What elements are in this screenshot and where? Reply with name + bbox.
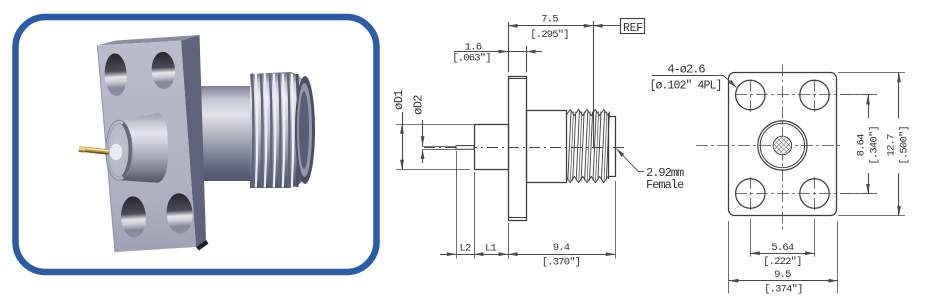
svg-text:[.222"]: [.222"] (763, 256, 802, 268)
svg-text:[.500"]: [.500"] (899, 126, 911, 165)
svg-text:4-ø2.6: 4-ø2.6 (667, 63, 705, 77)
svg-text:øD1: øD1 (392, 90, 406, 110)
svg-text:[.370"]: [.370"] (542, 257, 581, 269)
svg-text:L1: L1 (485, 243, 497, 255)
svg-text:REF: REF (623, 22, 643, 35)
svg-text:12.7: 12.7 (886, 134, 898, 157)
svg-text:8.64: 8.64 (856, 134, 868, 157)
svg-text:Female: Female (646, 178, 684, 192)
svg-text:øD2: øD2 (412, 95, 426, 115)
svg-text:9.4: 9.4 (553, 242, 570, 254)
svg-text:5.64: 5.64 (771, 242, 794, 254)
svg-text:[.374"]: [.374"] (764, 284, 803, 296)
svg-text:[.295"]: [.295"] (530, 29, 569, 41)
svg-text:9.5: 9.5 (774, 269, 791, 281)
svg-text:[ø.102" 4PL]: [ø.102" 4PL] (649, 80, 721, 93)
svg-text:[.340"]: [.340"] (869, 126, 881, 165)
svg-text:[.063"]: [.063"] (452, 53, 491, 65)
svg-text:L2: L2 (459, 243, 471, 255)
svg-text:7.5: 7.5 (541, 14, 558, 26)
